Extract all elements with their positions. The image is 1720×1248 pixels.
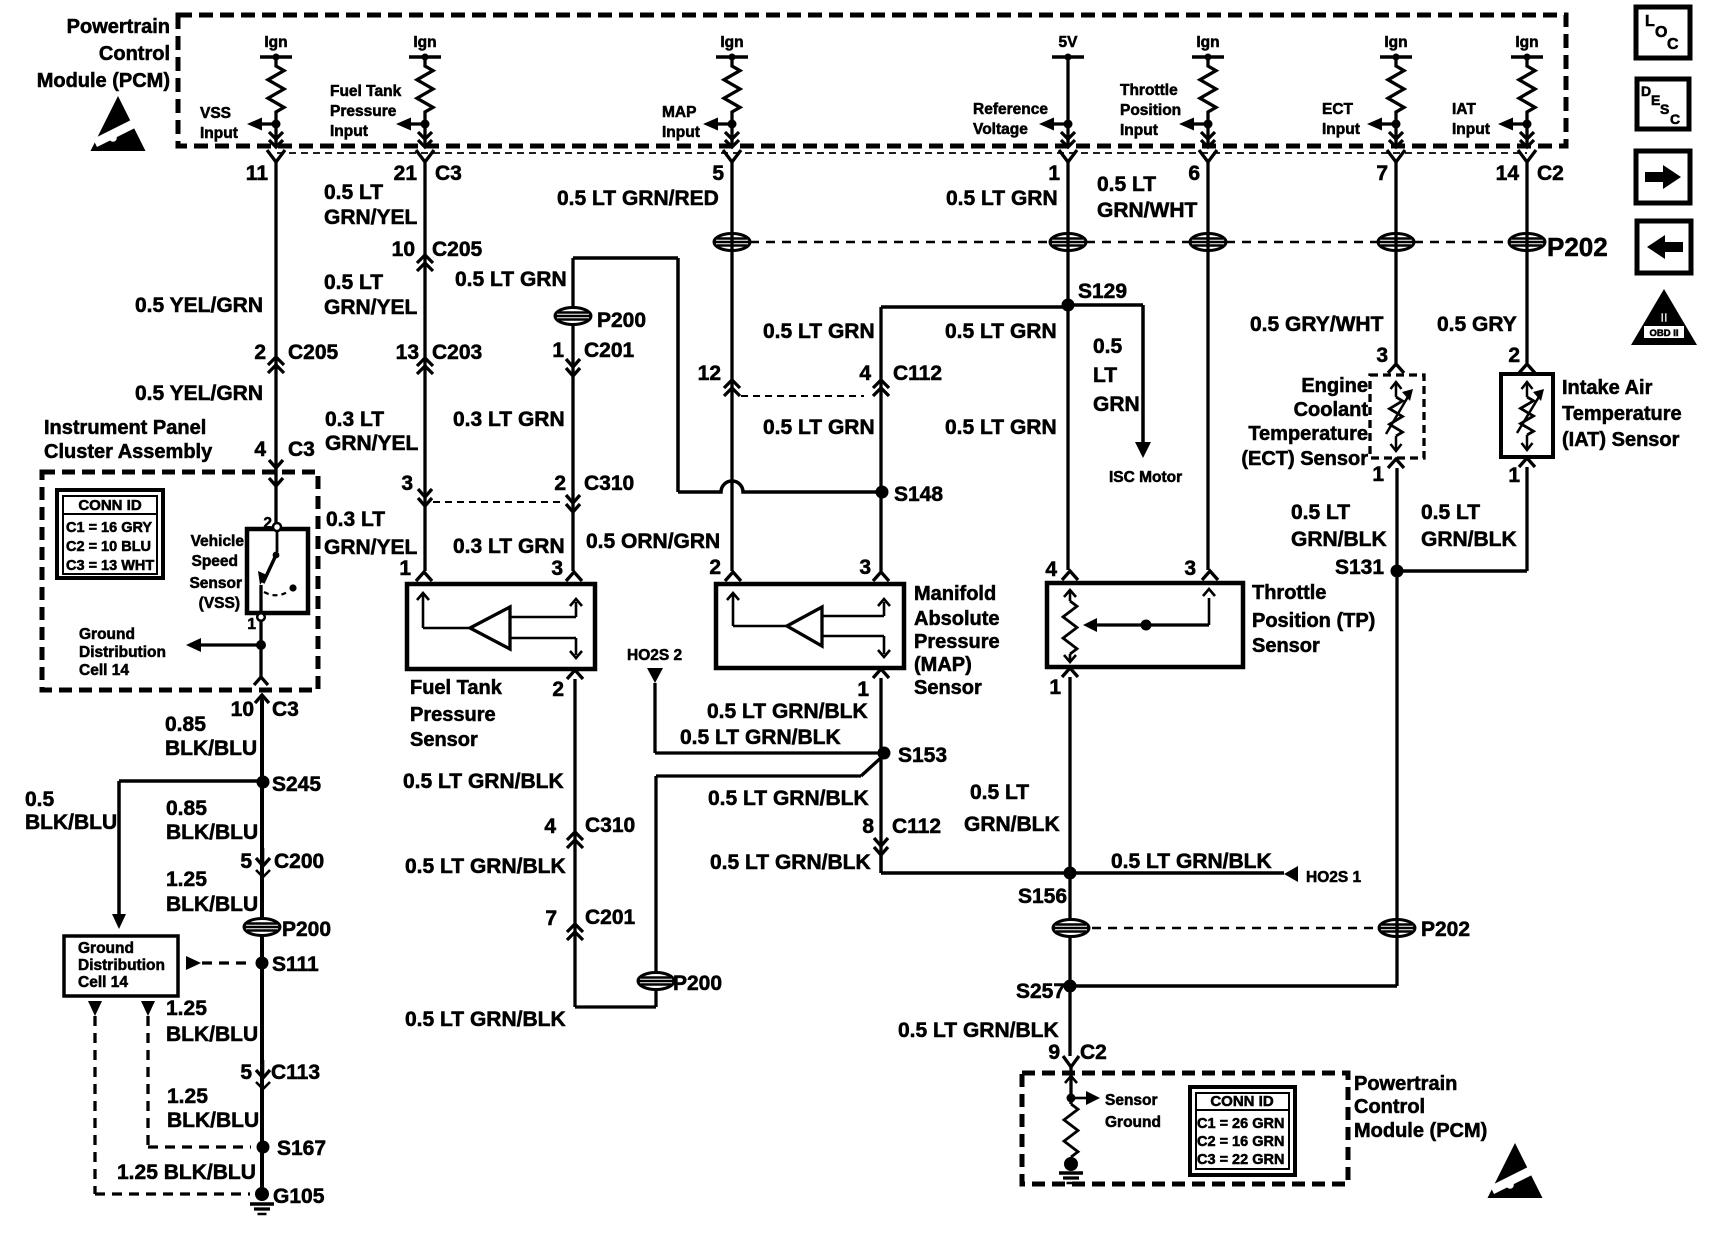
ECT sensor dashed box: [1370, 375, 1424, 458]
OBD II triangle icon: [1631, 289, 1697, 345]
connector 4 C3: [254, 438, 315, 468]
P202 grommet ECT ground: [1379, 918, 1470, 941]
svg-text:0.5 GRY/WHT: 0.5 GRY/WHT: [1250, 313, 1384, 336]
ground wire trunk: [260, 700, 264, 1194]
ground G105: [250, 1185, 325, 1214]
svg-text:C: C: [1667, 36, 1679, 53]
svg-text:2: 2: [552, 678, 564, 701]
PCM pin 14 connector C2: [1496, 150, 1564, 185]
Fuel Tank Pressure sensor box: [407, 584, 595, 669]
wire TP pin1 to PCM pin 9: [1068, 677, 1071, 1056]
svg-text:3: 3: [551, 557, 563, 580]
chevron at cluster box exit: [254, 677, 268, 685]
svg-text:0.5 LT GRN: 0.5 LT GRN: [945, 320, 1057, 343]
svg-text:C112: C112: [892, 815, 941, 838]
svg-text:0.85: 0.85: [166, 797, 207, 820]
svg-text:14: 14: [1496, 162, 1520, 185]
svg-text:0.5 YEL/GRN: 0.5 YEL/GRN: [135, 382, 263, 405]
svg-text:C203: C203: [432, 341, 482, 364]
svg-text:0.5 ORN/GRN: 0.5 ORN/GRN: [586, 530, 720, 553]
branch wire left from S245: [119, 781, 263, 914]
Throttle Position Input label: [1120, 82, 1181, 139]
svg-text:C200: C200: [274, 850, 324, 873]
connector 3 to C310 dashed link: [401, 472, 562, 506]
svg-text:BLK/BLU: BLK/BLU: [25, 811, 117, 834]
svg-text:Pressure: Pressure: [410, 704, 496, 726]
Sensor Ground label: [1105, 1092, 1161, 1131]
svg-text:CONN ID: CONN ID: [78, 497, 142, 514]
svg-text:BLK/BLU: BLK/BLU: [166, 893, 258, 916]
svg-text:4: 4: [859, 362, 871, 385]
connector 13 C203: [396, 341, 483, 374]
svg-text:6: 6: [1188, 162, 1200, 185]
svg-text:10: 10: [231, 698, 254, 721]
svg-text:5V: 5V: [1059, 34, 1079, 51]
P202 grommet sensor ground: [1053, 920, 1089, 937]
arrow from ground box right: [141, 1001, 155, 1016]
svg-text:0.5 LT: 0.5 LT: [1291, 501, 1350, 524]
svg-text:0.5 LT: 0.5 LT: [970, 781, 1029, 804]
svg-text:1: 1: [552, 339, 564, 362]
TP sensor internals: [1063, 589, 1215, 662]
wire ECT pin 1 to S257: [1395, 468, 1398, 986]
CONN ID table PCM: [1190, 1087, 1295, 1175]
IAT Input label: [1452, 101, 1490, 138]
svg-text:2: 2: [709, 556, 721, 579]
wire low ref to FTP pin 2: [575, 679, 656, 1007]
svg-text:Cell 14: Cell 14: [79, 662, 129, 679]
svg-text:Fuel Tank: Fuel Tank: [410, 677, 503, 699]
IAT sensor box: [1501, 374, 1553, 457]
svg-text:C2 = 10 BLU: C2 = 10 BLU: [66, 539, 151, 555]
svg-text:Vehicle: Vehicle: [191, 533, 245, 550]
Engine Coolant Temperature label: [1241, 375, 1368, 470]
svg-text:Module (PCM): Module (PCM): [1354, 1120, 1487, 1142]
wire PCM pin 14 to IAT sensor: [1525, 162, 1528, 363]
svg-text:C205: C205: [432, 238, 483, 261]
wire S156 to HO2S1: [1070, 871, 1284, 875]
label 0.5 LT GRN isc: [1093, 335, 1140, 416]
Manifold Absolute Pressure label: [914, 583, 1000, 699]
PCM bottom title: [1354, 1073, 1487, 1142]
connector 5 C113: [240, 1060, 320, 1089]
svg-text:4: 4: [544, 815, 556, 838]
svg-text:Control: Control: [99, 43, 170, 65]
svg-text:0.3 LT GRN: 0.3 LT GRN: [453, 408, 565, 431]
IAT sensor pin 2: [1508, 344, 1535, 373]
label 0.5 LT GRN/WHT: [1097, 173, 1197, 222]
svg-text:S245: S245: [272, 773, 321, 796]
svg-text:Coolant: Coolant: [1294, 399, 1369, 421]
connector 7 C201: [545, 906, 635, 940]
svg-text:P200: P200: [282, 918, 331, 941]
splice S153: [878, 744, 948, 767]
ECT Input label: [1322, 101, 1360, 138]
svg-text:BLK/BLU: BLK/BLU: [166, 821, 258, 844]
svg-text:Module (PCM): Module (PCM): [37, 70, 170, 92]
label 0.3 LT GRN/YEL lower: [324, 508, 418, 559]
svg-text:Input: Input: [1322, 121, 1360, 138]
wire S153 to P200 branch: [656, 755, 884, 1007]
svg-text:0.5 LT: 0.5 LT: [1421, 501, 1480, 524]
svg-text:Ign: Ign: [720, 34, 743, 51]
svg-text:7: 7: [1376, 162, 1388, 185]
splice S129: [1062, 280, 1128, 312]
label 1.25 BLK/BLU third: [167, 1085, 259, 1132]
svg-text:(ECT) Sensor: (ECT) Sensor: [1241, 448, 1368, 470]
P202 dashed link top: [750, 241, 1509, 244]
splice S167: [257, 1137, 327, 1160]
label 0.5 LT GRN/YEL upper: [324, 181, 418, 229]
label 0.5 LT GRN/BLK tp1: [964, 781, 1060, 836]
svg-text:Input: Input: [330, 123, 368, 140]
svg-text:Position (TP): Position (TP): [1252, 610, 1375, 632]
svg-text:(MAP): (MAP): [914, 654, 972, 676]
svg-text:GRN/YEL: GRN/YEL: [324, 296, 418, 319]
LOC icon box: [1636, 7, 1690, 58]
svg-text:Powertrain: Powertrain: [1354, 1073, 1457, 1095]
svg-text:1: 1: [1049, 676, 1061, 699]
sensor ground resistor: [1059, 1067, 1100, 1183]
svg-text:10: 10: [392, 238, 415, 261]
ESD symbol bottom-right: [1488, 1143, 1543, 1198]
svg-text:Throttle: Throttle: [1120, 82, 1178, 99]
P202 grommet ECT wire: [1378, 234, 1414, 251]
ECT thermistor: [1386, 382, 1413, 451]
ECT sensor pin 3: [1376, 344, 1404, 373]
connector 2 C205: [254, 341, 338, 373]
svg-text:C310: C310: [584, 472, 634, 495]
svg-text:GRN/YEL: GRN/YEL: [325, 432, 419, 455]
svg-text:Temperature: Temperature: [1248, 423, 1368, 445]
ESD symbol top-left: [91, 96, 146, 151]
svg-text:Sensor: Sensor: [914, 677, 982, 699]
svg-text:Cluster Assembly: Cluster Assembly: [44, 441, 213, 463]
splice S245: [257, 773, 322, 796]
svg-text:0.5: 0.5: [25, 788, 55, 811]
svg-text:Pressure: Pressure: [330, 103, 397, 120]
svg-text:Ground: Ground: [1105, 1114, 1161, 1131]
TP sensor pin 3: [1184, 557, 1218, 580]
svg-text:1: 1: [857, 678, 869, 701]
svg-text:GRN/BLK: GRN/BLK: [1291, 528, 1387, 551]
svg-text:CONN ID: CONN ID: [1210, 1093, 1274, 1110]
svg-text:4: 4: [254, 438, 266, 461]
svg-text:C: C: [1670, 111, 1680, 127]
splice S111 with dashed reference: [186, 953, 319, 976]
Ground Distribution Cell 14 label upper: [79, 626, 166, 679]
svg-text:S131: S131: [1335, 556, 1384, 579]
wire HO2S2 into S153: [655, 751, 878, 754]
svg-text:Sensor: Sensor: [189, 575, 242, 592]
FTP sensor pin 3: [551, 557, 582, 581]
svg-text:0.5 LT GRN/BLK: 0.5 LT GRN/BLK: [405, 855, 566, 878]
IAT thermistor: [1517, 382, 1544, 450]
svg-text:GRN: GRN: [1093, 393, 1140, 416]
svg-text:0.5 LT: 0.5 LT: [324, 271, 383, 294]
svg-text:0.5 LT GRN/BLK: 0.5 LT GRN/BLK: [898, 1019, 1059, 1042]
svg-text:0.5 LT GRN/BLK: 0.5 LT GRN/BLK: [403, 770, 564, 793]
right-arrow icon box: [1636, 151, 1690, 203]
svg-text:1.25: 1.25: [166, 997, 207, 1020]
FTP sensor pin 1: [399, 557, 432, 581]
PCM bottom dashed box: [1022, 1073, 1348, 1184]
grommet P200 ground wire: [244, 918, 331, 941]
svg-text:0.5 LT: 0.5 LT: [1097, 173, 1156, 196]
MAP sensor internals: [727, 593, 890, 657]
svg-text:GRN/WHT: GRN/WHT: [1097, 199, 1197, 222]
svg-text:Throttle: Throttle: [1252, 582, 1326, 604]
PCM pin 9 connector C2: [1048, 1041, 1107, 1067]
svg-text:C2: C2: [1537, 162, 1564, 185]
label 0.5 BLK/BLU: [25, 788, 117, 834]
svg-text:II: II: [1660, 310, 1667, 325]
Instrument Panel Cluster dashed box: [42, 472, 318, 690]
label 0.85 BLK/BLU lower: [166, 797, 258, 844]
svg-text:2: 2: [1508, 344, 1520, 367]
svg-text:P200: P200: [597, 309, 646, 332]
Ign supply FTP column: [396, 34, 441, 147]
svg-text:C112: C112: [893, 362, 942, 385]
Reference Voltage label: [973, 101, 1048, 138]
dashed wire to G105: [95, 1016, 250, 1194]
svg-text:ECT: ECT: [1322, 101, 1354, 118]
MAP sensor pin 1: [857, 669, 889, 701]
svg-text:Manifold: Manifold: [914, 583, 996, 605]
svg-text:Input: Input: [1452, 121, 1490, 138]
svg-text:S129: S129: [1078, 280, 1127, 303]
P202 dashed link bottom: [1092, 927, 1377, 930]
connector 1 C201: [552, 339, 634, 376]
grommet P200 low ref: [638, 972, 722, 995]
svg-text:12: 12: [698, 362, 721, 385]
svg-text:L: L: [1645, 13, 1655, 30]
svg-text:4: 4: [1045, 558, 1057, 581]
Ground Distribution Cell 14 box: [64, 936, 178, 996]
PCM dashed box: [178, 15, 1566, 146]
svg-text:Cell 14: Cell 14: [78, 974, 128, 991]
svg-text:C201: C201: [584, 339, 635, 362]
svg-text:(IAT) Sensor: (IAT) Sensor: [1562, 429, 1680, 451]
svg-text:2: 2: [263, 515, 272, 532]
svg-text:Voltage: Voltage: [973, 121, 1028, 138]
svg-text:1: 1: [399, 557, 411, 580]
svg-text:Intake Air: Intake Air: [1562, 377, 1653, 399]
svg-text:C201: C201: [585, 906, 636, 929]
wire PCM pin 6 to TP pin 3: [1206, 162, 1209, 570]
svg-text:Engine: Engine: [1301, 375, 1368, 397]
connector 8 C112: [862, 815, 941, 855]
Ign supply IAT column: [1498, 34, 1543, 147]
splice S156: [1018, 867, 1077, 909]
svg-text:Ign: Ign: [1196, 34, 1219, 51]
wire PCM pin 21 to FTP sensor pin 1: [423, 162, 426, 571]
svg-text:G105: G105: [273, 1185, 325, 1208]
label 0.5 LT GRN/BLK ect: [1291, 501, 1387, 551]
svg-text:5: 5: [240, 850, 252, 873]
svg-text:5: 5: [240, 1061, 252, 1084]
svg-text:P202: P202: [1421, 918, 1470, 941]
svg-text:O: O: [1655, 24, 1667, 41]
svg-text:Input: Input: [1120, 122, 1158, 139]
splice S131: [1335, 556, 1404, 579]
svg-text:0.5 LT GRN/BLK: 0.5 LT GRN/BLK: [708, 787, 869, 810]
svg-text:Sensor: Sensor: [1252, 635, 1320, 657]
svg-text:C3 = 13 WHT: C3 = 13 WHT: [66, 558, 154, 574]
Instrument Panel Cluster Assembly label: [44, 417, 213, 463]
svg-text:Sensor: Sensor: [1105, 1092, 1158, 1109]
ISC Motor branch: [1068, 305, 1182, 486]
svg-text:3: 3: [1184, 557, 1196, 580]
svg-text:ISC Motor: ISC Motor: [1109, 469, 1182, 486]
svg-text:E: E: [1651, 92, 1660, 108]
svg-text:21: 21: [394, 162, 418, 185]
TP sensor pin 1: [1049, 668, 1078, 699]
svg-text:0.5 LT GRN/BLK: 0.5 LT GRN/BLK: [710, 851, 871, 874]
svg-text:3: 3: [859, 556, 871, 579]
svg-text:Ign: Ign: [413, 34, 436, 51]
svg-text:(VSS): (VSS): [199, 595, 240, 612]
grommet P200 ref wire: [555, 308, 646, 333]
splice S148: [876, 483, 944, 506]
connector 10 C205: [392, 238, 483, 271]
svg-text:S257: S257: [1016, 980, 1065, 1003]
svg-text:Powertrain: Powertrain: [67, 16, 170, 38]
svg-text:GRN/BLK: GRN/BLK: [1421, 528, 1517, 551]
svg-text:Speed: Speed: [191, 553, 238, 570]
svg-text:GRN/YEL: GRN/YEL: [324, 206, 418, 229]
svg-text:HO2S 1: HO2S 1: [1306, 869, 1362, 886]
wire VSS pin1 to ground junction: [259, 621, 262, 677]
svg-text:1: 1: [1372, 463, 1384, 486]
Ground Distribution Cell 14 reference arrow: [186, 638, 266, 652]
svg-text:0.5 LT GRN: 0.5 LT GRN: [945, 416, 1057, 439]
svg-text:C3: C3: [272, 698, 299, 721]
svg-text:Input: Input: [200, 125, 238, 142]
svg-text:S156: S156: [1018, 885, 1067, 908]
svg-text:LT: LT: [1093, 364, 1117, 387]
wire PCM pin 7 to ECT sensor: [1394, 162, 1397, 363]
svg-text:Position: Position: [1120, 102, 1181, 119]
PCM pin 7: [1376, 150, 1405, 185]
svg-text:5: 5: [712, 162, 724, 185]
svg-text:Ground: Ground: [79, 626, 135, 643]
svg-text:Absolute: Absolute: [914, 608, 1000, 630]
label 1.25 BLK/BLU second: [166, 997, 258, 1046]
splice S257: [1016, 980, 1077, 1004]
chevron at cluster box entry: [269, 478, 283, 486]
svg-text:Instrument Panel: Instrument Panel: [44, 417, 206, 439]
svg-text:0.5 LT GRN: 0.5 LT GRN: [763, 416, 875, 439]
MAP sensor pin 3: [859, 556, 889, 581]
svg-text:GRN/YEL: GRN/YEL: [324, 536, 418, 559]
Throttle Position label: [1252, 582, 1375, 657]
HO2S 2 reference: [627, 647, 682, 753]
svg-text:3: 3: [401, 472, 413, 495]
svg-text:IAT: IAT: [1452, 101, 1476, 118]
Ign supply VSS column: [247, 34, 292, 147]
svg-text:OBD II: OBD II: [1649, 328, 1678, 339]
5V supply column: [1039, 34, 1084, 147]
svg-text:0.5 LT GRN/BLK: 0.5 LT GRN/BLK: [1111, 850, 1272, 873]
wire branch down to FTP pin 3: [571, 258, 574, 571]
Ign supply MAP column: [703, 34, 748, 147]
svg-text:S111: S111: [272, 953, 319, 976]
VSS switch: [257, 531, 296, 621]
wire PCM pin 11 to VSS: [274, 162, 277, 527]
svg-text:C2 = 16 GRN: C2 = 16 GRN: [1197, 1134, 1284, 1150]
wire S129 to C112 to MAP pin 3: [881, 307, 1068, 571]
svg-text:GRN/BLK: GRN/BLK: [964, 813, 1060, 836]
svg-text:VSS: VSS: [200, 105, 231, 122]
svg-text:C2: C2: [1080, 1041, 1107, 1064]
svg-text:Ign: Ign: [1515, 34, 1538, 51]
wire ECT IAT ground to S257: [1070, 984, 1397, 988]
svg-text:C3 = 22 GRN: C3 = 22 GRN: [1197, 1152, 1284, 1168]
Intake Air Temperature label: [1562, 377, 1682, 451]
svg-text:C1 = 26 GRN: C1 = 26 GRN: [1197, 1116, 1284, 1132]
svg-text:Temperature: Temperature: [1562, 403, 1682, 425]
label 0.3 LT GRN/YEL upper: [325, 408, 419, 455]
svg-text:0.85: 0.85: [165, 713, 206, 736]
svg-text:HO2S 2: HO2S 2: [627, 647, 682, 664]
PCM pin 11: [246, 150, 285, 185]
connector 5 C200: [240, 848, 324, 877]
svg-text:Ign: Ign: [264, 34, 287, 51]
svg-text:0.3 LT GRN: 0.3 LT GRN: [453, 535, 565, 558]
ECT sensor pin 1: [1372, 459, 1404, 486]
VSS Input label: [200, 105, 238, 142]
svg-text:C310: C310: [585, 814, 635, 837]
svg-text:1: 1: [1508, 464, 1520, 487]
svg-text:2: 2: [254, 341, 266, 364]
wire IAT pin 1 to S131: [1397, 467, 1527, 571]
svg-text:1.25 BLK/BLU: 1.25 BLK/BLU: [117, 1161, 256, 1184]
arrow from ground box left: [88, 1001, 102, 1016]
label 0.85 BLK/BLU upper: [165, 713, 257, 760]
svg-text:C1 = 16 GRY: C1 = 16 GRY: [66, 520, 152, 536]
Fuel Tank Pressure Input label: [330, 83, 402, 140]
P202 grommet 5V wire: [1050, 234, 1086, 251]
label 0.5 LT GRN/YEL second: [324, 271, 418, 319]
svg-text:Fuel Tank: Fuel Tank: [330, 83, 402, 100]
svg-text:Reference: Reference: [973, 101, 1048, 118]
label 0.5 LT GRN/BLK iat: [1421, 501, 1517, 551]
svg-text:C3: C3: [288, 438, 315, 461]
svg-text:0.5: 0.5: [1093, 335, 1123, 358]
wire S148 branch: [678, 258, 876, 492]
svg-text:0.5 LT GRN/BLK: 0.5 LT GRN/BLK: [405, 1008, 566, 1031]
svg-text:2: 2: [554, 472, 566, 495]
svg-text:S148: S148: [894, 483, 943, 506]
Fuel Tank Pressure Sensor label: [410, 677, 503, 751]
svg-text:0.5 YEL/GRN: 0.5 YEL/GRN: [135, 294, 263, 317]
label 1.25 BLK/BLU first: [166, 868, 258, 916]
svg-text:1: 1: [1048, 162, 1060, 185]
svg-text:C113: C113: [271, 1061, 320, 1084]
svg-text:P200: P200: [673, 972, 722, 995]
svg-text:Ign: Ign: [1384, 34, 1407, 51]
svg-text:BLK/BLU: BLK/BLU: [166, 1023, 258, 1046]
arrow into ground distribution box: [112, 914, 126, 929]
svg-text:0.5 LT: 0.5 LT: [324, 181, 383, 204]
svg-text:1.25: 1.25: [167, 1085, 208, 1108]
connector 4 C310: [544, 814, 635, 848]
wire C112 to S156: [879, 855, 882, 873]
svg-text:7: 7: [545, 907, 557, 930]
P202 grommet MAP wire: [714, 234, 750, 251]
svg-text:0.5 LT GRN: 0.5 LT GRN: [455, 268, 567, 291]
